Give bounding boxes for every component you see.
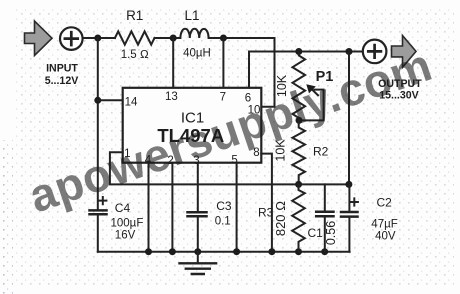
junction: C1/bus <box>321 248 328 255</box>
wire: pin 1 feedback run <box>110 152 349 184</box>
junction: C3/bus <box>194 248 201 255</box>
wire: pin 6 up and across to output <box>249 52 363 88</box>
svg-text:14: 14 <box>125 96 138 108</box>
wire: C4 to bus <box>97 215 99 251</box>
junction: R3/bus <box>295 248 302 255</box>
node: C2 junction <box>345 181 352 188</box>
wire: input circle to R1 <box>83 37 115 39</box>
svg-text:R1: R1 <box>126 8 143 23</box>
inductor L1 <box>180 29 208 38</box>
wire: wiper to lower terminal <box>299 90 324 121</box>
input arrow <box>25 21 53 56</box>
C2 plus mark <box>351 198 358 205</box>
wire: input rail down to C4 <box>97 38 99 209</box>
output arrow <box>392 36 417 68</box>
capacitor C4 <box>90 210 107 214</box>
svg-text:100µF: 100µF <box>111 218 144 230</box>
svg-text:C1: C1 <box>308 226 324 240</box>
wire: C3 to bus <box>197 217 199 251</box>
C4 plus mark <box>99 197 106 204</box>
svg-text:820 Ω: 820 Ω <box>273 201 288 236</box>
node: pin 14 tap <box>94 97 101 104</box>
svg-text:40V: 40V <box>375 231 396 243</box>
wire: to pin 10 <box>261 38 274 107</box>
svg-text:1.5 Ω: 1.5 Ω <box>121 49 149 61</box>
node: P1 top junction <box>295 48 302 55</box>
wire: pin 4 to ground bus <box>148 163 150 252</box>
capacitor C3 <box>188 212 207 216</box>
svg-text:40µH: 40µH <box>183 48 211 60</box>
potentiometer P1 <box>292 52 305 121</box>
junction: pin5/bus <box>233 248 240 255</box>
node: R1-L1 junction <box>170 35 177 42</box>
wire: L1 to corner <box>209 37 275 39</box>
svg-text:0.1: 0.1 <box>215 216 231 228</box>
resistor R3 <box>292 184 305 251</box>
junction: pin8/bus <box>268 248 275 255</box>
svg-text:5...12V: 5...12V <box>45 75 79 87</box>
node: feedback junction (R2/R3) <box>295 181 302 188</box>
svg-text:R3: R3 <box>258 206 274 220</box>
resistor R1 <box>115 31 155 44</box>
junction: pin4/bus <box>145 248 152 255</box>
wire: pin 3 down to C3 <box>197 163 199 211</box>
svg-text:16V: 16V <box>115 229 136 241</box>
svg-text:C2: C2 <box>377 196 393 210</box>
svg-text:7: 7 <box>220 92 226 104</box>
node: P1 bottom junction <box>296 117 303 124</box>
wire: pin 8 right and down to bus <box>261 154 272 252</box>
resistor R2 <box>292 120 305 184</box>
svg-text:INPUT: INPUT <box>46 63 78 75</box>
svg-text:47µF: 47µF <box>371 219 397 231</box>
node: L1 output junction <box>220 35 227 42</box>
node: output branch junction <box>346 48 353 55</box>
junction: pin2/bus <box>169 248 176 255</box>
output source node (+) <box>363 40 387 64</box>
svg-text:L1: L1 <box>184 8 199 23</box>
wire: pin 5 to ground bus <box>236 163 238 252</box>
wire: R1 to L1 <box>155 37 181 39</box>
IC U1 box (IC1 TL497A) <box>123 88 262 163</box>
node: input junction <box>94 35 101 42</box>
svg-text:R2: R2 <box>313 145 329 159</box>
wire: node to pin 7 <box>222 38 224 88</box>
ground symbol <box>197 252 199 263</box>
ground bus wire <box>98 251 350 253</box>
input source node (+) <box>60 27 83 50</box>
svg-text:C3: C3 <box>216 199 232 213</box>
wire: node to pin 13 <box>172 38 174 88</box>
svg-text:0.56: 0.56 <box>324 221 338 245</box>
svg-text:C4: C4 <box>115 201 131 215</box>
wire: node to pin 14 <box>98 99 123 101</box>
svg-text:13: 13 <box>165 91 178 103</box>
wire: output down to C2 node <box>348 52 350 185</box>
capacitor C2 <box>348 184 350 211</box>
P1 wiper arrow <box>312 89 319 95</box>
capacitor C1 <box>324 184 326 211</box>
wire: pin 2 to ground bus <box>171 163 173 252</box>
